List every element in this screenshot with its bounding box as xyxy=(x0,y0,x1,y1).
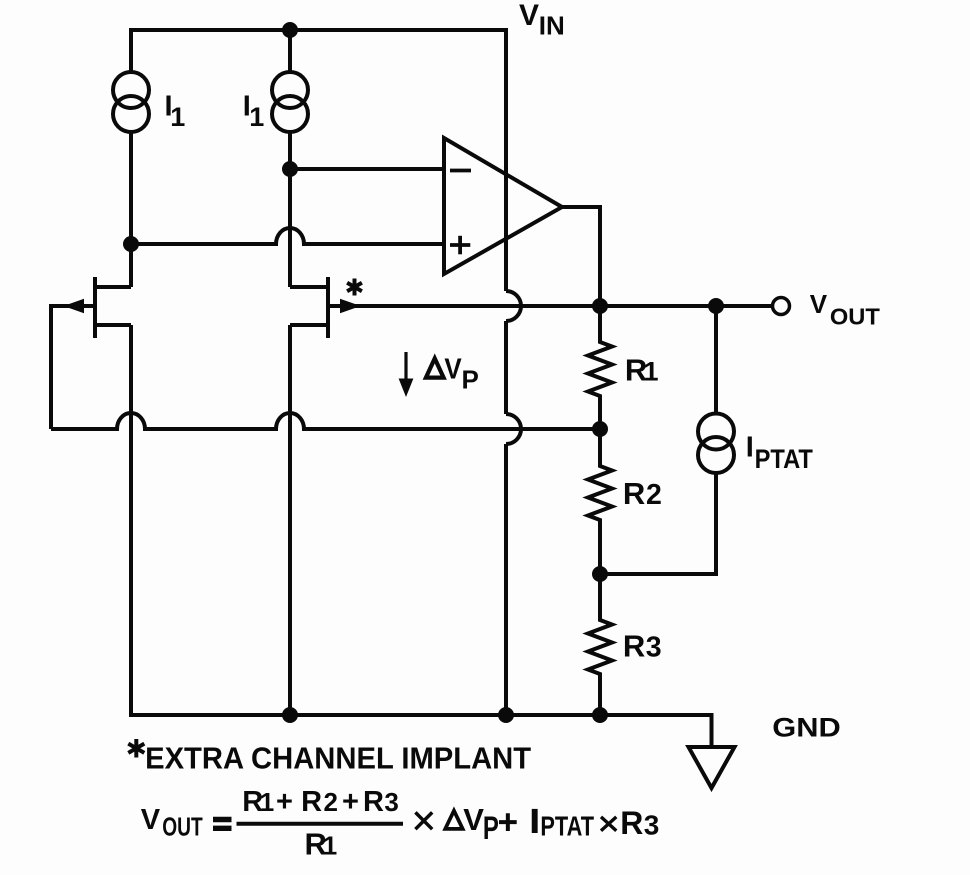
svg-text:PTAT: PTAT xyxy=(755,444,814,474)
svg-text:+: + xyxy=(342,786,359,818)
svg-text:1: 1 xyxy=(644,357,659,387)
svg-text:P: P xyxy=(483,810,499,846)
svg-text:V: V xyxy=(810,289,828,319)
svg-text:OUT: OUT xyxy=(162,812,203,842)
svg-text:1: 1 xyxy=(170,102,185,132)
svg-text:P: P xyxy=(462,364,479,394)
svg-text:R: R xyxy=(623,629,645,664)
svg-text:2: 2 xyxy=(324,787,338,817)
svg-text:V: V xyxy=(141,804,161,836)
svg-text:R: R xyxy=(363,786,384,818)
svg-text:GND: GND xyxy=(772,713,841,743)
svg-text:3: 3 xyxy=(644,810,660,841)
svg-text:V: V xyxy=(463,802,484,837)
svg-text:R: R xyxy=(623,476,645,511)
svg-text:PTAT: PTAT xyxy=(540,810,594,841)
svg-text:R: R xyxy=(301,786,322,818)
svg-text:R: R xyxy=(620,805,643,841)
svg-text:+: + xyxy=(276,786,293,818)
svg-text:1: 1 xyxy=(323,831,337,861)
svg-text:1: 1 xyxy=(249,102,264,132)
svg-text:EXTRA CHANNEL IMPLANT: EXTRA CHANNEL IMPLANT xyxy=(145,741,531,776)
svg-text:IN: IN xyxy=(539,11,565,41)
svg-text:1: 1 xyxy=(260,787,274,817)
svg-text:OUT: OUT xyxy=(830,304,880,330)
svg-text:2: 2 xyxy=(646,479,662,511)
svg-text:3: 3 xyxy=(646,632,662,664)
svg-text:V: V xyxy=(519,0,539,32)
svg-text:I: I xyxy=(746,431,754,463)
svg-text:3: 3 xyxy=(384,787,398,817)
svg-text:V: V xyxy=(444,353,462,385)
